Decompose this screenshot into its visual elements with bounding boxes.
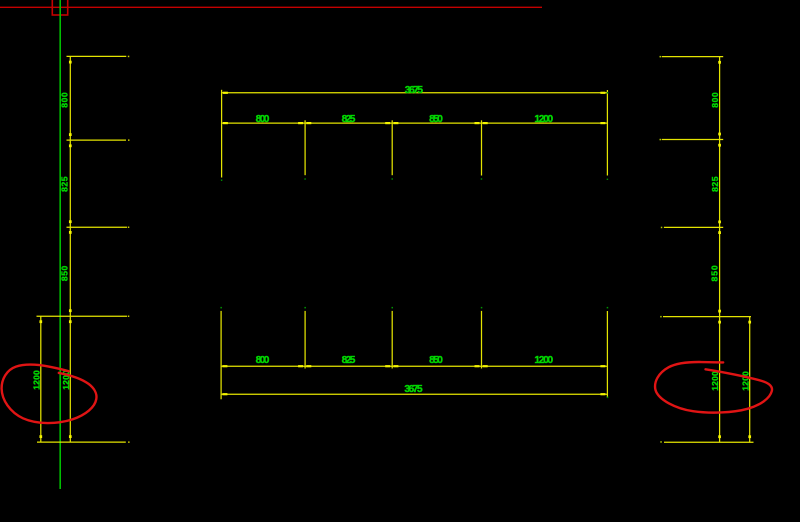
svg-text:825: 825 [342,114,356,125]
right labels [710,92,751,391]
left dim line vertical [69,56,71,442]
mid-bot overall dim line [221,393,607,395]
left labels [32,92,71,390]
left defpoint dots [128,56,130,443]
svg-text:1200: 1200 [534,355,553,366]
svg-text:850: 850 [710,265,720,281]
svg-text:825: 825 [710,176,720,192]
svg-text:850: 850 [60,265,70,281]
right ext line 3 [664,226,723,228]
svg-text:1200: 1200 [534,114,553,125]
green axis line [59,0,61,489]
left ext line 2 [67,139,127,141]
mid-bot labels [256,355,554,395]
mid-top segment dim line [222,122,607,124]
mid-top ext E [606,90,608,176]
red crossing line top [0,6,542,8]
svg-text:1200: 1200 [740,371,750,391]
svg-text:850: 850 [429,355,443,366]
svg-text:825: 825 [60,176,70,192]
left ext line 5 [37,441,126,443]
mid-top labels [256,85,554,125]
mid-top overall dim line [222,92,607,94]
mid-top ext A [221,90,223,178]
svg-text:800: 800 [256,355,270,366]
right ext line 2 [662,139,724,141]
left dim arrows [39,61,71,438]
RIGHT COLUMN [662,57,754,443]
svg-text:850: 850 [429,114,443,125]
right defpoint dots [660,56,663,443]
mid-bot segment dim line [221,365,607,367]
svg-text:800: 800 [256,114,270,125]
mid-bot ext B [304,311,306,369]
mid-bot ext D [481,311,483,369]
right dim line vertical 2 [749,317,751,443]
left dim line vertical 2 [40,316,42,442]
mid-top ext D [481,120,483,175]
right ext line 5 [664,441,754,443]
left ext line 4 [37,315,128,317]
right ext line 4 [663,316,751,318]
LEFT COLUMN [37,56,128,442]
svg-text:1200: 1200 [32,370,42,390]
mid-bot ext E [606,311,608,397]
svg-text:825: 825 [342,355,356,366]
svg-text:3675: 3675 [404,384,422,395]
left ext line 3 [67,226,128,228]
svg-text:1200: 1200 [710,371,720,391]
left ext line 1 [67,55,127,57]
mid-bot ext C [391,311,393,369]
svg-text:800: 800 [710,92,720,108]
MIDDLE TOP GROUP [222,90,608,178]
mid-top ext C [391,120,393,175]
svg-text:800: 800 [60,92,70,108]
right dim arrows [718,61,751,438]
mid-top defpoint dots [221,92,608,181]
right ext line 1 [662,56,724,58]
mid-bot defpoint dots [220,307,608,398]
mid-bot ext A [220,311,222,399]
mid-bot arrows [222,365,605,395]
right dim line vertical [719,57,721,443]
mid-top ext B [304,120,306,175]
svg-text:3675: 3675 [405,85,423,96]
red markup ellipse right [655,362,772,413]
red markup ellipse left [2,365,97,423]
red rectangle marker top-left [52,0,67,15]
MIDDLE BOTTOM GROUP [221,311,607,399]
mid-top arrows [223,92,606,125]
